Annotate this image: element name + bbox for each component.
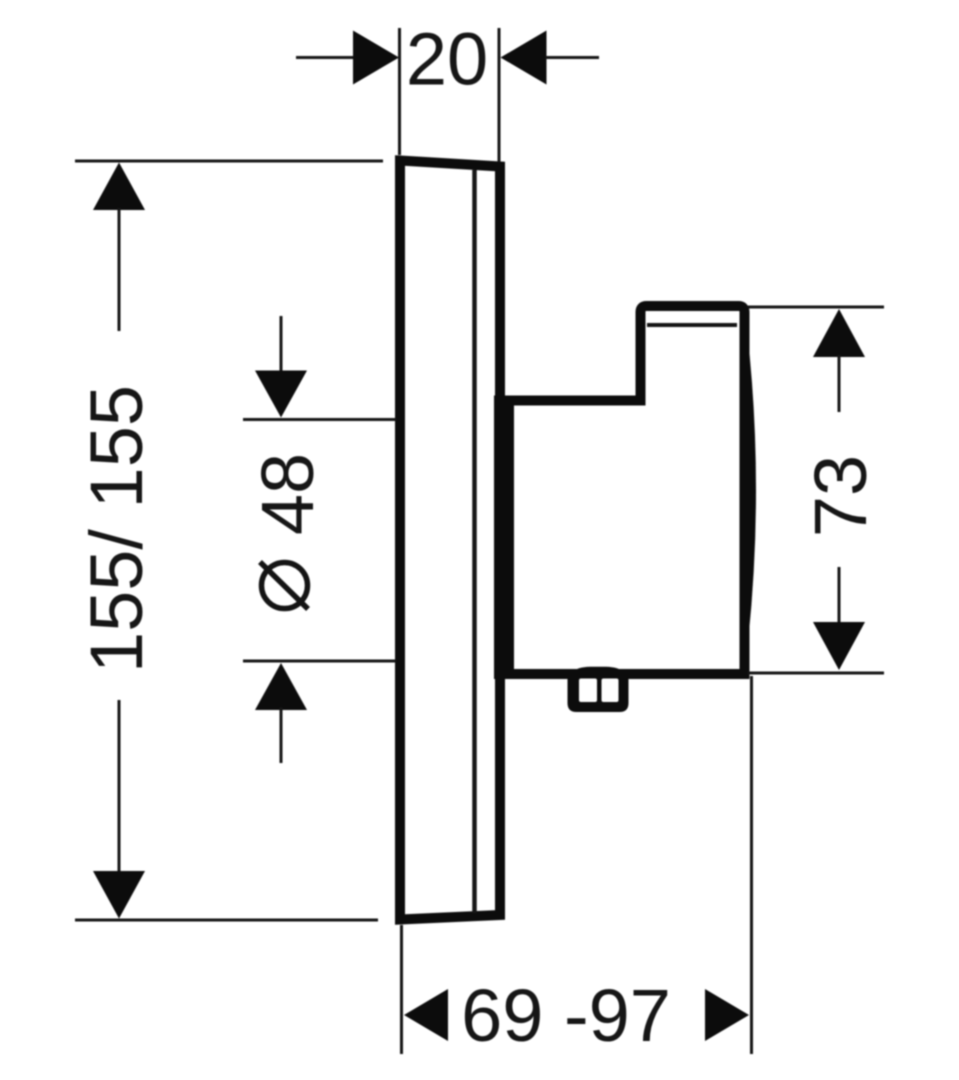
dim D48: bottom arrow (up) <box>255 663 307 710</box>
dim 73: upper line segment <box>838 355 841 412</box>
dim 69-97: right arrow <box>705 989 749 1041</box>
dim D48: top extension line <box>243 418 396 421</box>
valve body cylinder curvature line <box>745 312 756 668</box>
svg-text:48: 48 <box>246 453 329 535</box>
cartridge housing inner line <box>647 323 737 327</box>
svg-text:73: 73 <box>799 455 882 537</box>
dim 73: bottom arrow (down) <box>813 622 865 670</box>
dim 69-97: left extension line <box>400 925 403 1054</box>
wall plate outline (side view) <box>400 161 500 920</box>
dim 20: left arrow <box>353 31 399 85</box>
dim 155/155: top extension line <box>75 160 383 163</box>
outlet fitting right window <box>602 679 619 703</box>
dim D48: diameter symbol slash <box>260 562 308 609</box>
wall plate inner edge line <box>472 170 477 913</box>
dim D48: top arrow (down) <box>255 371 307 418</box>
dim 73: bottom extension line <box>748 672 884 675</box>
outlet fitting left window <box>579 679 597 703</box>
dim 73: top extension line <box>748 306 884 309</box>
bottom outlet fitting <box>568 671 629 712</box>
dim 20: right extension line <box>498 28 501 162</box>
dim 20: left leader <box>296 56 354 59</box>
bottom outlet bump <box>573 667 624 674</box>
svg-text:69 -97: 69 -97 <box>461 974 671 1057</box>
dim 155/155: lower line segment <box>118 700 121 872</box>
plate/body junction band <box>494 396 514 680</box>
svg-text:20: 20 <box>406 18 488 101</box>
dim D48: lower line segment <box>280 708 283 764</box>
dim 155/155: top arrow <box>93 163 145 211</box>
dim 73: lower line segment <box>838 567 841 624</box>
dim D48: diameter symbol circle <box>262 563 308 609</box>
dim D48: bottom extension line <box>243 660 396 663</box>
svg-text:155/ 155: 155/ 155 <box>75 385 158 673</box>
dim 73: top arrow (up) <box>813 309 865 357</box>
dim 20: right leader <box>546 56 600 59</box>
dim 20: left extension line <box>398 28 401 155</box>
dim 155/155: upper line segment <box>118 208 121 331</box>
valve body outline <box>509 306 745 674</box>
dim 69-97: left arrow <box>404 989 448 1041</box>
dim 20: right arrow <box>501 31 547 85</box>
dim D48: upper line segment <box>280 316 283 373</box>
dim 155/155: bottom extension line <box>75 919 378 922</box>
dim 155/155: bottom arrow <box>93 871 145 919</box>
dim 69-97: right extension line <box>750 676 753 1054</box>
